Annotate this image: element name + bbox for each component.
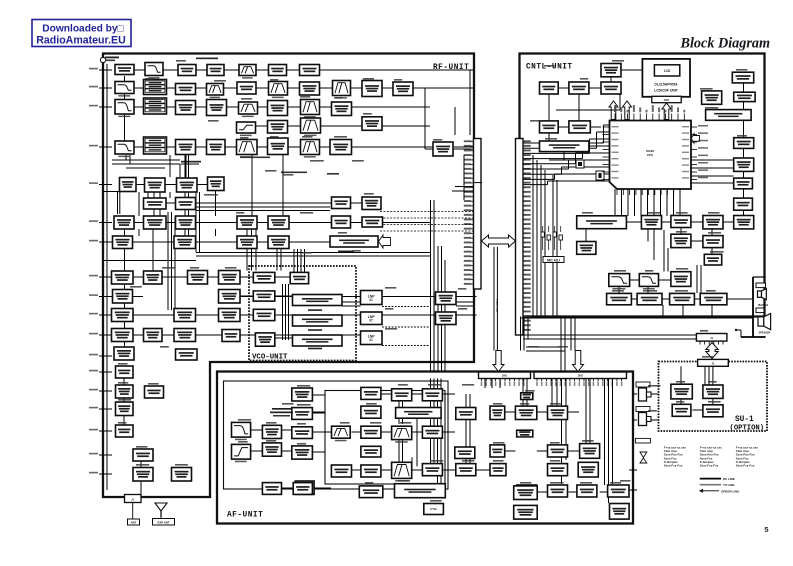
svg-text:GREEN LINE: GREEN LINE <box>721 489 739 493</box>
svg-text:MIC ADJ: MIC ADJ <box>547 258 560 262</box>
svg-text:SU-1: SU-1 <box>735 416 754 424</box>
svg-text:Sxxx-Fxx-Fxx: Sxxx-Fxx-Fxx <box>736 463 755 467</box>
svg-text:(OPTION): (OPTION) <box>730 425 765 433</box>
svg-text:CPU: CPU <box>647 153 653 157</box>
svg-text:IC: IC <box>369 338 373 342</box>
svg-text:ANT: ANT <box>131 521 137 525</box>
svg-text:5: 5 <box>764 525 768 534</box>
svg-text:DL2L5AP005A: DL2L5AP005A <box>654 83 678 87</box>
svg-text:J301: J301 <box>664 98 670 102</box>
svg-text:RX LINE: RX LINE <box>723 477 735 481</box>
svg-text:Downloaded by□: Downloaded by□ <box>42 24 123 35</box>
svg-text:RF-UNIT: RF-UNIT <box>433 64 469 72</box>
svg-text:RadioAmateur.EU: RadioAmateur.EU <box>36 35 125 47</box>
svg-text:LCD/CDF UNIT: LCD/CDF UNIT <box>654 89 679 93</box>
svg-text:CNTL-UNIT: CNTL-UNIT <box>526 64 573 72</box>
svg-text:IC: IC <box>369 319 373 323</box>
svg-text:LCD: LCD <box>664 69 671 73</box>
svg-text:J601: J601 <box>502 374 508 377</box>
svg-text:VCO-UNIT: VCO-UNIT <box>252 354 288 362</box>
svg-text:Block Diagram: Block Diagram <box>680 36 770 52</box>
svg-text:PHONES: PHONES <box>758 304 769 307</box>
svg-text:X'TAL: X'TAL <box>430 507 438 511</box>
svg-text:J602: J602 <box>578 374 584 377</box>
svg-text:AF-UNIT: AF-UNIT <box>227 512 263 520</box>
svg-text:IC: IC <box>369 298 373 302</box>
svg-text:EXP ANT: EXP ANT <box>158 520 170 524</box>
svg-text:Sxxx-Fxx-Fxx: Sxxx-Fxx-Fxx <box>664 463 683 467</box>
svg-text:SPEAKER: SPEAKER <box>759 332 771 335</box>
svg-text:Sxxx-Fxx-Fxx: Sxxx-Fxx-Fxx <box>700 463 719 467</box>
svg-text:TX LINE: TX LINE <box>723 483 735 487</box>
